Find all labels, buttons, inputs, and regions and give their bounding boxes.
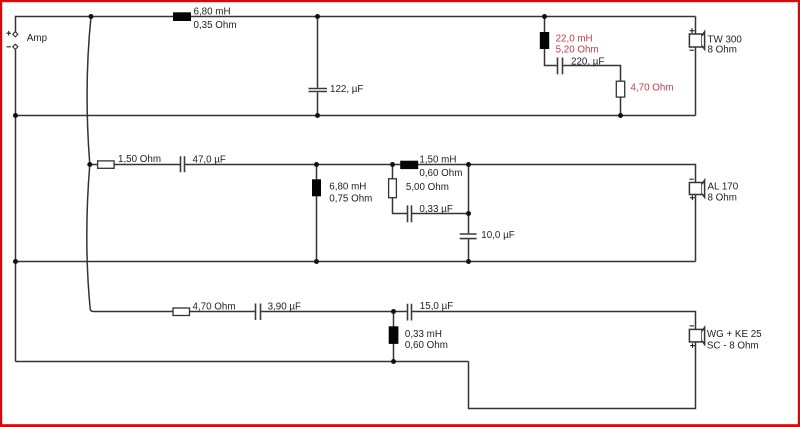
resistor R4 4,70 Ohm woofer xyxy=(173,308,190,316)
speaker TW 300 box xyxy=(689,34,702,47)
svg-text:0,60 Ohm: 0,60 Ohm xyxy=(419,168,462,179)
junction on top rail at curve takeoff xyxy=(89,14,94,19)
junction R2 / 122 uF branch xyxy=(315,113,320,118)
svg-text:122, µF: 122, µF xyxy=(330,84,363,95)
speaker WG + KE 25 cone xyxy=(702,327,705,344)
svg-text:8 Ohm: 8 Ohm xyxy=(708,44,737,55)
wire: midrange rail R3 left part to C2 xyxy=(90,164,181,166)
svg-text:3,90 µF: 3,90 µF xyxy=(268,301,301,312)
wire: shunt inductor L3 branch xyxy=(316,165,318,262)
wire: midrange rail R3 from C2 to AL 170 drop xyxy=(185,165,696,183)
wire: 0,33 mH branch xyxy=(393,312,395,362)
svg-text:6,80 mH: 6,80 mH xyxy=(329,181,366,192)
junction R4 / shunt inductor L3 xyxy=(314,259,319,264)
svg-text:4,70 Ohm: 4,70 Ohm xyxy=(193,301,236,312)
svg-text:4,70 Ohm: 4,70 Ohm xyxy=(631,83,674,94)
speaker AL 170 box xyxy=(689,183,702,195)
speaker TW 300 + sign xyxy=(690,28,695,33)
speaker TW 300 - sign xyxy=(690,49,694,51)
wire: C4 to R2 via 4,70 Ohm resistor xyxy=(563,66,621,116)
amp + terminal diamond xyxy=(13,32,18,37)
svg-text:1,50 Ohm: 1,50 Ohm xyxy=(118,154,161,165)
junction R4 / Amp - column xyxy=(13,259,18,264)
wire: AL 170 + down to rail R4 xyxy=(695,195,697,262)
svg-text:WG + KE 25: WG + KE 25 xyxy=(707,329,762,340)
amp + sign xyxy=(6,31,11,36)
capacitor C7 15,0 uF plates xyxy=(408,304,412,321)
speaker WG - sign xyxy=(690,325,694,327)
svg-text:47,0 µF: 47,0 µF xyxy=(193,154,226,165)
junction top rail / 122 uF branch xyxy=(315,14,320,19)
wire: rail R4 (midrange return) xyxy=(16,261,696,263)
junction R3 / 10,0 uF branch xyxy=(466,162,471,167)
junction top rail / 22 mH branch xyxy=(542,14,547,19)
capacitor C2 47,0 uF plates xyxy=(181,156,185,172)
amp - terminal diamond xyxy=(13,44,18,49)
wire: 5,00 Ohm branch down and across to C5 xyxy=(393,165,408,214)
svg-text:0,35 Ohm: 0,35 Ohm xyxy=(194,20,237,31)
wire: woofer rail R5 between C6 and C7 xyxy=(261,311,408,313)
junction R4 / 10,0 uF branch xyxy=(466,259,471,264)
svg-text:0,60 Ohm: 0,60 Ohm xyxy=(405,340,448,351)
svg-text:10,0 µF: 10,0 µF xyxy=(481,230,514,241)
svg-text:0,33 µF: 0,33 µF xyxy=(419,204,452,215)
inductor L5 0,33 mH woofer shunt xyxy=(389,326,399,344)
inductor L3 6,80 mH midrange shunt xyxy=(312,179,321,196)
wire: WG + KE 25 return to bottom rail xyxy=(469,342,696,409)
svg-text:5,20 Ohm: 5,20 Ohm xyxy=(556,45,599,56)
speaker WG + KE 25 box xyxy=(689,329,702,342)
svg-text:22,0 mH: 22,0 mH xyxy=(556,33,593,44)
wire: rail R2 (tweeter return) xyxy=(16,115,696,117)
junction R3 / shunt inductor L3 xyxy=(314,162,319,167)
svg-text:8 Ohm: 8 Ohm xyxy=(708,192,737,203)
capacitor C3 10,0 uF plates xyxy=(460,234,477,239)
speaker AL 170 - sign xyxy=(689,178,693,180)
svg-text:5,00 Ohm: 5,00 Ohm xyxy=(406,182,449,193)
wire: top rail from Amp + terminal to tweeter drop xyxy=(16,17,696,32)
wire: woofer rail R5 from C7 to WG drop xyxy=(412,312,696,330)
capacitor C1 122 uF plates xyxy=(309,89,328,92)
wire: 22 mH branch down and across to C4 xyxy=(545,17,558,66)
resistor R1 1,50 Ohm xyxy=(98,161,115,168)
inductor L2 22,0 mH xyxy=(540,32,549,49)
speaker AL 170 cone xyxy=(702,180,705,197)
speaker AL 170 + sign xyxy=(690,195,695,200)
svg-text:SC - 8 Ohm: SC - 8 Ohm xyxy=(707,341,759,352)
wire: 122 uF branch lower segment xyxy=(317,92,319,115)
svg-text:0,33 mH: 0,33 mH xyxy=(405,329,442,340)
speaker WG + sign xyxy=(690,343,695,348)
svg-text:15,0 µF: 15,0 µF xyxy=(420,301,453,312)
wire: Amp - terminal down left side to bottom return xyxy=(15,49,17,361)
resistor R3 5,00 Ohm xyxy=(389,179,397,198)
wire: 10,0 uF branch lower segment xyxy=(468,239,470,261)
junction R6 / 0,33 mH branch xyxy=(391,359,396,364)
junction R2 / 4,70 Ohm branch xyxy=(618,113,623,118)
svg-text:AL 170: AL 170 xyxy=(708,181,739,192)
resistor R2 4,70 Ohm tweeter xyxy=(616,81,624,97)
wire: bottom return rail R6 xyxy=(16,361,469,363)
capacitor C5 0,33 uF plates xyxy=(408,205,412,222)
wire: drop from top rail to TW 300 + xyxy=(695,17,697,35)
junction R2 / Amp - column xyxy=(13,113,18,118)
junction R5 / 0,33 mH branch xyxy=(391,309,396,314)
wire: TW 300 - down to rail R2 xyxy=(695,47,697,116)
junction zobel / 10,0 uF column xyxy=(466,211,471,216)
wire: C5 to node at x469 xyxy=(412,213,469,215)
inductor L4 1,50 mH series midrange xyxy=(400,161,418,169)
wire: curved feed from midrange node to woofer branch xyxy=(87,165,94,312)
svg-text:0,75 Ohm: 0,75 Ohm xyxy=(329,193,372,204)
amp - sign xyxy=(7,46,11,48)
svg-text:1,50 mH: 1,50 mH xyxy=(419,154,456,165)
wire: 10,0 uF branch upper segment xyxy=(468,165,470,234)
inductor L1 6,80 mH series tweeter xyxy=(173,12,191,21)
capacitor C4 220 uF plates xyxy=(558,57,563,74)
node: midrange feed terminal xyxy=(87,162,92,167)
wire: woofer rail R5 left part to C6 xyxy=(94,311,256,313)
wire: 122 uF branch upper segment xyxy=(317,17,319,88)
svg-text:Amp: Amp xyxy=(27,33,48,44)
svg-text:220, µF: 220, µF xyxy=(571,56,604,67)
junction R3 / 5,00 Ohm branch xyxy=(390,162,395,167)
svg-text:6,80 mH: 6,80 mH xyxy=(194,6,231,17)
capacitor C6 3,90 uF plates xyxy=(256,304,261,321)
speaker TW 300 cone xyxy=(702,32,705,50)
wire: curved feed from top rail to midrange node xyxy=(87,17,91,165)
